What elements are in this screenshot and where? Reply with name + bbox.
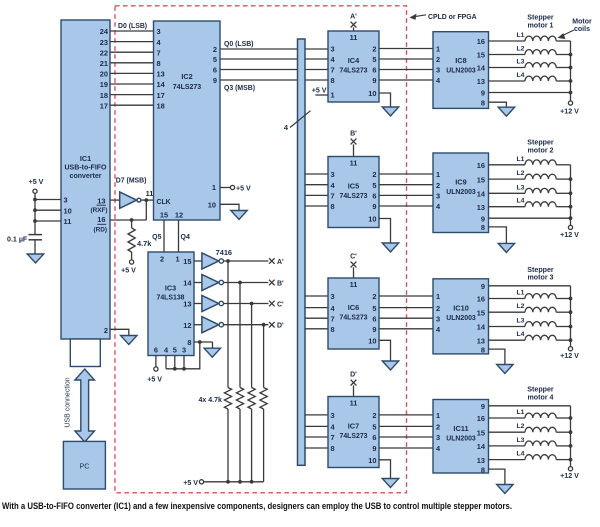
node D' clock input [353, 385, 355, 396]
svg-text:13: 13 [477, 456, 485, 465]
CPLD/FPGA dashed boundary box [115, 6, 407, 493]
svg-text:IC1: IC1 [80, 154, 91, 163]
junction dot +12V line motor 2 [569, 191, 573, 195]
svg-text:5: 5 [213, 55, 217, 64]
svg-text:ULN2003: ULN2003 [446, 189, 476, 196]
svg-text:13: 13 [157, 70, 165, 79]
svg-text:Stepper: Stepper [527, 14, 554, 22]
svg-text:6: 6 [372, 433, 376, 442]
svg-text:motor 2: motor 2 [527, 147, 553, 155]
svg-text:21: 21 [100, 59, 108, 68]
inductor L1 motor 1 [489, 40, 526, 42]
svg-text:L3: L3 [517, 318, 525, 325]
svg-text:10: 10 [64, 206, 72, 215]
junction B' pullup [238, 281, 242, 285]
svg-text:7: 7 [331, 192, 335, 201]
wire D7 IC1 pin 17 to IC2 [110, 104, 154, 106]
wire D1 IC1 pin 23 to IC2 [110, 41, 154, 43]
junction dot +12V line motor 3 [569, 338, 573, 342]
terminal +12V motor 4 [568, 467, 572, 471]
inductor L1 motor 3 [489, 298, 526, 300]
terminal +12V motor 2 [568, 225, 572, 229]
PC box [63, 441, 105, 489]
svg-text:8: 8 [481, 345, 485, 354]
svg-text:IC11: IC11 [453, 424, 468, 433]
resistor RA 4.7k pullup [224, 388, 231, 410]
wire +5V vertical rail [34, 193, 36, 234]
svg-text:1: 1 [331, 91, 335, 100]
svg-text:16: 16 [477, 295, 485, 304]
svg-text:17: 17 [157, 91, 165, 100]
inductor L4 motor 3 [489, 339, 526, 341]
svg-text:6: 6 [372, 314, 376, 323]
svg-text:IC7: IC7 [348, 422, 360, 431]
svg-text:15: 15 [477, 428, 485, 437]
svg-text:IC6: IC6 [348, 303, 360, 312]
svg-text:9: 9 [372, 202, 376, 211]
junction dot +12V line motor 1 [569, 53, 573, 57]
junction dot +12V line motor 4 [569, 444, 573, 448]
wire D5 IC1 pin 19 to IC2 [110, 83, 154, 85]
driver IC8 ULN2003 body [433, 32, 489, 109]
connector X D' [269, 322, 275, 328]
wire inverter B' output to connector [224, 282, 269, 284]
inverter 7416 gate A' [202, 253, 219, 269]
terminal +5V top left [33, 189, 37, 193]
svg-text:D0 (LSB): D0 (LSB) [118, 23, 147, 30]
inverter 7416 gate C' [202, 295, 219, 311]
wire Q2 IC2 to bus to IC4 [220, 69, 328, 71]
svg-text:2: 2 [372, 45, 376, 54]
wire IC1 pin 10 to +5V rail [35, 209, 61, 211]
terminal +12V motor 3 [568, 347, 572, 351]
svg-text:3: 3 [157, 27, 161, 36]
svg-text:1: 1 [175, 255, 179, 264]
svg-text:+5 V: +5 V [29, 178, 44, 186]
IC11 pin 8 to ground [489, 469, 505, 484]
svg-text:16: 16 [97, 215, 105, 224]
svg-text:7: 7 [157, 48, 161, 57]
wire inverter C' output to connector [224, 303, 269, 305]
+12V common line motor 1 [570, 41, 572, 101]
inductor L2 motor 4 [489, 431, 526, 433]
wire IC7 pin 2 to IC11 pin 1 [379, 414, 433, 416]
IC9 pin 8 to ground [489, 227, 507, 244]
svg-text:12: 12 [183, 321, 191, 330]
svg-text:3: 3 [64, 196, 68, 205]
wire D3 IC1 pin 21 to IC2 [110, 62, 154, 64]
svg-text:3: 3 [331, 45, 335, 54]
IC2 74LS273 body [154, 21, 221, 220]
+12V common line motor 4 [570, 406, 572, 467]
wire IC5 pin 2 to IC9 pin 1 [379, 173, 433, 175]
junction dot pullup rail [238, 480, 242, 484]
svg-text:+5 V: +5 V [312, 87, 327, 95]
svg-text:2: 2 [436, 55, 440, 64]
IC1 USB-to-FIFO converter body [61, 20, 110, 339]
wire IC4 pin 5 to IC8 pin 2 [379, 58, 433, 60]
svg-text:9: 9 [372, 325, 376, 334]
svg-text:16: 16 [477, 414, 485, 423]
svg-text:+12 V: +12 V [560, 352, 579, 360]
svg-text:L4: L4 [517, 198, 525, 205]
junction dot +12V line motor 2 [569, 177, 573, 181]
connector X B' [269, 280, 275, 286]
wire IC6 pin 6 to IC10 pin 3 [379, 317, 433, 319]
junction dot on +5V rail [33, 208, 37, 212]
svg-text:L2: L2 [517, 423, 525, 430]
svg-text:74LS273: 74LS273 [340, 315, 368, 322]
svg-text:7416: 7416 [216, 248, 232, 257]
svg-text:8: 8 [331, 202, 335, 211]
svg-text:2: 2 [436, 304, 440, 313]
CPLD or FPGA callout arrow [411, 15, 426, 17]
svg-text:3: 3 [436, 192, 440, 201]
driver IC11 ULN2003 body [433, 400, 489, 474]
junction dot +12V line motor 1 [569, 79, 573, 83]
svg-text:8: 8 [187, 338, 191, 347]
svg-text:11: 11 [146, 189, 154, 198]
svg-text:Stepper: Stepper [527, 386, 554, 394]
svg-text:A': A' [350, 14, 357, 21]
wire IC3 output to inverter C' [194, 303, 202, 305]
svg-text:coils: coils [574, 26, 590, 33]
junction dot +12V line motor 2 [569, 205, 573, 209]
svg-text:11: 11 [64, 217, 72, 226]
svg-text:3: 3 [436, 66, 440, 75]
svg-text:10: 10 [368, 456, 376, 465]
driver IC10 ULN2003 body [433, 279, 489, 354]
wire IC5 pin 5 to IC9 pin 2 [379, 184, 433, 186]
svg-text:8: 8 [331, 444, 335, 453]
svg-text:13: 13 [477, 77, 485, 86]
junction dot +12V line motor 3 [569, 325, 573, 329]
svg-text:IC9: IC9 [455, 178, 467, 187]
inductor L1 motor 2 [489, 164, 526, 166]
svg-text:2: 2 [372, 292, 376, 301]
svg-text:L4: L4 [517, 72, 525, 79]
svg-text:10: 10 [368, 215, 376, 224]
wire bus bit 3 to IC5 pin 8 [305, 205, 328, 207]
svg-text:74LS273: 74LS273 [173, 84, 202, 91]
wire bus bit 2 to IC6 pin 7 [305, 317, 328, 319]
svg-text:IC2: IC2 [181, 72, 192, 81]
wire IC9 pin 9 to +12V line [489, 217, 571, 219]
wire IC4 pin 6 to IC8 pin 3 [379, 69, 433, 71]
wire IC10 pin 9 to +12V line [489, 285, 571, 287]
svg-text:1: 1 [436, 45, 440, 54]
svg-text:Q0 (LSB): Q0 (LSB) [224, 41, 253, 48]
wire IC4 pin 2 to IC8 pin 1 [379, 48, 433, 50]
svg-text:9: 9 [481, 214, 485, 223]
wire IC7 pin 9 to IC11 pin 4 [379, 447, 433, 449]
inductor L4 motor 4 [489, 459, 526, 461]
wire pullup column D' to resistor [263, 325, 265, 388]
wire pullup column A' to resistor [227, 261, 229, 388]
wire bus bit 2 to IC5 pin 7 [305, 194, 328, 196]
svg-text:D': D' [350, 372, 357, 379]
svg-text:10: 10 [368, 337, 376, 346]
svg-text:2: 2 [213, 45, 217, 54]
resistor RB 4.7k pullup [236, 388, 243, 410]
wire IC6 pin 2 to IC10 pin 1 [379, 295, 433, 297]
svg-text:15: 15 [477, 175, 485, 184]
svg-text:L4: L4 [517, 331, 525, 338]
svg-text:13: 13 [97, 197, 105, 206]
svg-text:2: 2 [104, 326, 108, 335]
svg-text:6: 6 [154, 346, 158, 355]
svg-text:2: 2 [372, 170, 376, 179]
wire IC3 output to inverter B' [194, 282, 202, 284]
wire bus bit 2 to IC7 pin 7 [305, 436, 328, 438]
svg-text:15: 15 [477, 308, 485, 317]
svg-text:L3: L3 [517, 437, 525, 444]
inductor L2 motor 1 [489, 54, 526, 56]
svg-text:2: 2 [372, 411, 376, 420]
svg-text:B': B' [277, 281, 284, 288]
svg-text:ULN2003: ULN2003 [446, 315, 476, 322]
svg-text:L1: L1 [517, 32, 525, 39]
svg-text:B': B' [350, 131, 357, 138]
svg-text:8: 8 [331, 325, 335, 334]
svg-text:USB connection: USB connection [65, 377, 72, 427]
wire bus bit 1 to IC5 pin 4 [305, 184, 328, 186]
wire bus bit 0 to IC7 pin 3 [305, 414, 328, 416]
svg-text:5: 5 [372, 423, 376, 432]
wire IC6 pin 5 to IC10 pin 2 [379, 307, 433, 309]
svg-text:19: 19 [100, 80, 108, 89]
wire inverter A' output to connector [224, 260, 269, 262]
svg-text:3: 3 [182, 346, 186, 355]
wire CLK junction down to RD line [145, 200, 147, 220]
svg-text:5: 5 [372, 181, 376, 190]
svg-text:9: 9 [481, 282, 485, 291]
wire IC1 pin 3 to +5V rail [35, 199, 61, 201]
svg-text:13: 13 [183, 300, 191, 309]
svg-text:7: 7 [331, 66, 335, 75]
wire Q3 IC2 to bus to IC4 [220, 79, 328, 81]
inductor L3 motor 4 [489, 445, 526, 447]
svg-text:IC4: IC4 [348, 56, 360, 65]
svg-text:L2: L2 [517, 46, 525, 53]
node RD pullup junction [130, 218, 134, 222]
wire inverter output to IC2 CLK pin 11 [141, 199, 154, 201]
svg-text:2: 2 [160, 255, 164, 264]
ground below capacitor [27, 254, 43, 263]
svg-text:L4: L4 [517, 451, 525, 458]
junction dot pullup rail [226, 480, 230, 484]
junction dot +12V line motor 1 [569, 66, 573, 70]
svg-text:6: 6 [372, 66, 376, 75]
svg-text:14: 14 [477, 442, 486, 451]
junction dot pin9 motor 1 [569, 91, 573, 95]
svg-text:L3: L3 [517, 184, 525, 191]
junction dot on +5V rail [33, 219, 37, 223]
svg-text:5: 5 [372, 55, 376, 64]
svg-text:L2: L2 [517, 170, 525, 177]
resistor RD 4.7k pullup [260, 388, 267, 410]
svg-text:L1: L1 [517, 409, 525, 416]
wire Q0 IC2 to bus to IC4 [220, 48, 328, 50]
svg-text:2: 2 [436, 423, 440, 432]
svg-text:+12 V: +12 V [560, 107, 579, 115]
inductor L4 motor 2 [489, 206, 526, 208]
svg-text:12: 12 [175, 211, 183, 220]
latch IC6 74LS273 body [328, 278, 379, 349]
wire IC4 pin 9 to IC8 pin 4 [379, 79, 433, 81]
svg-text:1: 1 [212, 183, 216, 192]
svg-text:10: 10 [208, 200, 216, 209]
svg-text:18: 18 [100, 91, 108, 100]
svg-text:Stepper: Stepper [527, 139, 554, 147]
latch IC4 74LS273 body [328, 31, 379, 102]
svg-text:14: 14 [477, 323, 486, 332]
svg-text:1: 1 [436, 411, 440, 420]
svg-text:1: 1 [436, 170, 440, 179]
svg-text:motor 3: motor 3 [527, 274, 553, 282]
junction dot +12V line motor 4 [569, 458, 573, 462]
IC10 pin 8 to ground [489, 349, 505, 364]
svg-text:23: 23 [100, 38, 108, 47]
svg-text:C': C' [277, 302, 284, 309]
svg-text:USB-to-FIFO: USB-to-FIFO [65, 165, 108, 172]
junction dot on +5V rail [33, 198, 37, 202]
svg-text:L3: L3 [517, 59, 525, 66]
junction dot pin9 motor 2 [569, 216, 573, 220]
wire pullup column B' to resistor [239, 283, 241, 388]
svg-text:3: 3 [436, 433, 440, 442]
svg-text:motor 1: motor 1 [527, 22, 553, 30]
svg-text:14: 14 [477, 64, 486, 73]
inductor L2 motor 3 [489, 311, 526, 313]
svg-text:+5 V: +5 V [236, 185, 251, 193]
svg-text:CLK: CLK [157, 199, 171, 206]
inductor L2 motor 2 [489, 178, 526, 180]
svg-text:9: 9 [372, 444, 376, 453]
svg-text:7: 7 [331, 433, 335, 442]
svg-text:+5 V: +5 V [147, 376, 162, 384]
svg-text:11: 11 [350, 399, 358, 408]
junction dot pullup rail [250, 480, 254, 484]
wire D0 IC1 pin 24 to IC2 [110, 30, 154, 32]
wire bus bit 0 to IC5 pin 3 [305, 173, 328, 175]
terminal +12V motor 1 [568, 101, 572, 105]
inverter U-D7 7416 buffer [120, 192, 137, 208]
svg-text:7: 7 [331, 314, 335, 323]
wire inverter D' output to connector [224, 324, 269, 326]
svg-text:6: 6 [372, 192, 376, 201]
svg-text:With a USB-to-FIFO converter (: With a USB-to-FIFO converter (IC1) and a… [2, 501, 512, 512]
inductor L4 motor 1 [489, 80, 526, 82]
wire IC1 pin13 to inverter input [110, 199, 120, 201]
svg-text:converter: converter [70, 173, 102, 180]
svg-text:D': D' [277, 323, 284, 330]
wire IC3 output to inverter A' [194, 260, 202, 262]
svg-text:motor 4: motor 4 [527, 394, 553, 402]
svg-text:16: 16 [477, 161, 485, 170]
wire IC7 pin 5 to IC11 pin 2 [379, 425, 433, 427]
wire bus bit 1 to IC7 pin 4 [305, 425, 328, 427]
wire +5V rail for pullups [204, 481, 264, 483]
wire D6 IC1 pin 18 to IC2 [110, 94, 154, 96]
node CLK junction [144, 198, 148, 202]
wire IC5 pin 6 to IC9 pin 3 [379, 194, 433, 196]
svg-text:74LS273: 74LS273 [340, 433, 368, 440]
connector X C' [269, 301, 275, 307]
svg-text:ULN2003: ULN2003 [446, 68, 476, 75]
svg-text:5: 5 [372, 304, 376, 313]
svg-text:1: 1 [436, 292, 440, 301]
inverter 7416 gate D' [202, 317, 219, 333]
wire D4 IC1 pin 20 to IC2 [110, 72, 154, 74]
svg-text:14: 14 [477, 190, 486, 199]
svg-text:CPLD or FPGA: CPLD or FPGA [428, 14, 477, 21]
svg-text:20: 20 [100, 70, 108, 79]
svg-text:L1: L1 [517, 290, 525, 297]
svg-text:+5 V: +5 V [183, 479, 198, 487]
svg-text:+12 V: +12 V [560, 231, 579, 239]
svg-text:+12 V: +12 V [560, 472, 579, 480]
svg-text:IC3: IC3 [165, 284, 176, 293]
svg-text:PC: PC [80, 462, 90, 471]
svg-text:10: 10 [368, 89, 376, 98]
junction C' pullup [250, 302, 254, 306]
node C' clock input [353, 267, 355, 278]
latch IC5 74LS273 body [328, 157, 379, 228]
wire IC7 pin 6 to IC11 pin 3 [379, 436, 433, 438]
svg-text:IC10: IC10 [453, 303, 469, 312]
IC3 pin 6 to +5V terminal [155, 356, 157, 367]
svg-text:17: 17 [100, 101, 108, 110]
inductor L1 motor 4 [489, 417, 526, 419]
+12V common line motor 2 [570, 165, 572, 226]
svg-text:13: 13 [477, 336, 485, 345]
svg-text:(RXF): (RXF) [90, 207, 107, 214]
svg-text:11: 11 [350, 280, 358, 289]
ground IC3 pin 8 [204, 348, 220, 357]
svg-text:15: 15 [183, 257, 191, 266]
junction D' pullup [262, 323, 266, 327]
latch IC7 74LS273 body [328, 397, 379, 468]
wire IC11 pin 9 to +12V line [489, 405, 571, 407]
svg-text:8: 8 [481, 98, 485, 107]
svg-text:18: 18 [157, 101, 165, 110]
USB connection double arrow [75, 369, 95, 442]
svg-text:14: 14 [157, 80, 166, 89]
wire IC1 pin 11 to +5V rail [35, 220, 61, 222]
wire Q5 IC2 pin15 to IC3 pin2 [163, 220, 165, 252]
ground IC1 pin 2 [121, 336, 137, 345]
resistor RC 4.7k pullup [248, 388, 255, 410]
svg-text:4x 4.7k: 4x 4.7k [199, 397, 222, 404]
svg-text:74LS273: 74LS273 [340, 193, 368, 200]
svg-text:8: 8 [157, 59, 161, 68]
wire IC8 pin 9 to +12V line [489, 92, 571, 94]
driver IC9 ULN2003 body [433, 153, 489, 233]
+12V common line motor 3 [570, 286, 572, 347]
svg-text:A': A' [277, 259, 284, 266]
svg-text:0.1 µF: 0.1 µF [7, 236, 28, 244]
svg-text:Motor: Motor [572, 19, 592, 26]
wire Q4 IC2 pin12 to IC3 pin1 [178, 220, 180, 252]
svg-text:9: 9 [481, 89, 485, 98]
svg-text:L2: L2 [517, 303, 525, 310]
svg-text:15: 15 [160, 211, 168, 220]
svg-text:ULN2003: ULN2003 [446, 436, 476, 443]
svg-text:8: 8 [331, 76, 335, 85]
svg-text:2: 2 [436, 181, 440, 190]
svg-text:4.7k: 4.7k [137, 239, 152, 248]
